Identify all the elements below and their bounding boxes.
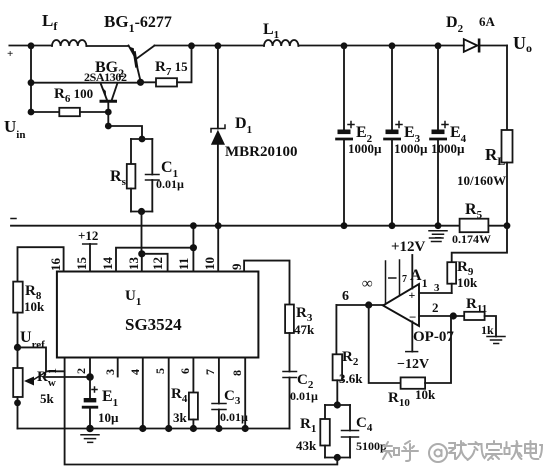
svg-text:1k: 1k (481, 323, 494, 337)
svg-text:12: 12 (150, 257, 165, 270)
diode D1 (211, 46, 225, 226)
pin 2 stub (89, 358, 91, 378)
node bus E4 (435, 222, 442, 229)
wire op-amp output node 6 (336, 304, 383, 306)
svg-text:10µ: 10µ (98, 410, 119, 425)
wire Lf to BG1 emitter (86, 45, 128, 47)
node top D1 (215, 42, 222, 49)
svg-text:3k: 3k (173, 410, 188, 425)
transistor BG2 (100, 83, 118, 112)
watermark zhihu (383, 441, 543, 462)
svg-text:2SA1302: 2SA1302 (84, 70, 127, 84)
svg-text:15: 15 (74, 257, 89, 271)
wire V+ supply (411, 255, 413, 289)
node pin11 pin14 (190, 244, 197, 251)
node pin8 (242, 425, 249, 432)
svg-text:∞: ∞ (362, 276, 373, 292)
svg-text:0.01µ: 0.01µ (290, 389, 318, 403)
node output 6 (365, 301, 372, 308)
wire op-amp plus input (419, 292, 452, 294)
svg-text:+12: +12 (78, 228, 98, 243)
svg-text:2: 2 (74, 368, 88, 374)
svg-text:2: 2 (432, 300, 439, 315)
svg-text:5: 5 (153, 368, 167, 374)
node top R7 riser (188, 42, 195, 49)
svg-text:+12V: +12V (391, 239, 426, 255)
node R2 bottom (334, 401, 341, 408)
wire wiper to pin2 (44, 376, 90, 378)
svg-text:0.01µ: 0.01µ (220, 410, 248, 424)
svg-text:7: 7 (402, 274, 407, 285)
pin 14 wire (116, 248, 193, 272)
svg-text:11: 11 (176, 258, 191, 270)
wire feedback bottom line (65, 358, 338, 465)
svg-text:1: 1 (45, 368, 59, 374)
node bus output corner (504, 222, 511, 229)
svg-text:OP-07: OP-07 (413, 329, 454, 345)
node BG1 base / R7 left (137, 79, 144, 86)
capacitor E4 (429, 46, 448, 226)
resistor R2 (333, 305, 343, 405)
svg-text:10: 10 (202, 257, 217, 270)
wire feedback down (369, 305, 401, 383)
svg-text:4: 4 (128, 369, 142, 375)
transistor BG1 (129, 46, 155, 82)
node R6 left (28, 109, 35, 116)
node pin13 (138, 250, 145, 257)
wire L1 to D2 (298, 45, 463, 47)
V- terminal bar (406, 351, 418, 353)
inductor L1 (264, 40, 298, 46)
node pin7 (215, 425, 222, 432)
resistor R4 on pin 6 (189, 358, 198, 429)
svg-text:−12V: −12V (397, 357, 429, 372)
svg-text:+: + (409, 288, 416, 302)
ground E1 (81, 435, 99, 443)
node minus input (450, 312, 457, 319)
resistor Rs with capacitor C1 parallel (127, 139, 159, 212)
resistor R7 (141, 46, 192, 87)
svg-text:1000µ: 1000µ (431, 141, 465, 156)
node Uref (14, 344, 21, 351)
capacitor C2 (283, 372, 297, 429)
node pin2 E1 (86, 373, 94, 381)
node pin6 (190, 425, 197, 432)
resistor R5 current sense (460, 219, 507, 233)
wire left rail (30, 46, 32, 113)
ground R11 (487, 337, 505, 344)
node pin5 (165, 425, 172, 432)
node left rail mid (28, 79, 35, 86)
pin 11 wire to bus (192, 226, 194, 272)
wire main ground bus (11, 225, 460, 227)
node E4 top (435, 42, 442, 49)
resistor R10 (401, 316, 451, 389)
svg-text:16: 16 (48, 258, 63, 272)
node base drive corner (105, 123, 112, 130)
pin 16 wire to R8 rail (18, 247, 64, 281)
svg-text:5k: 5k (40, 391, 55, 406)
node pin4 (139, 425, 146, 432)
diode D2 (464, 39, 507, 53)
pin 13 wire (141, 254, 143, 272)
svg-text:6: 6 (178, 368, 192, 374)
svg-text:SG3524: SG3524 (125, 315, 182, 334)
svg-text:3.6k: 3.6k (339, 371, 363, 386)
node pin10 bus (215, 222, 222, 229)
capacitor E2 (335, 46, 354, 226)
node input top (28, 42, 35, 49)
node BG2 base (105, 109, 112, 116)
resistor R11 (464, 312, 496, 337)
node RsC1 top (139, 136, 146, 143)
node RsC1 bottom (138, 208, 145, 215)
pin 4 wire (142, 358, 144, 429)
svg-text:1000µ: 1000µ (348, 141, 382, 156)
node E2 top (341, 42, 348, 49)
wire to Lf (31, 45, 52, 47)
svg-text:13: 13 (126, 257, 141, 271)
inductor Lf (52, 40, 86, 46)
svg-text:10/160W: 10/160W (457, 173, 506, 188)
svg-text:MBR20100: MBR20100 (225, 144, 298, 160)
node Rw bottom (14, 400, 21, 407)
pin 5 wire (168, 358, 170, 429)
resistor R3 (285, 305, 294, 372)
wire V- supply (411, 322, 413, 352)
potentiometer Rw (13, 347, 46, 428)
svg-text:10k: 10k (457, 275, 478, 290)
svg-text:8: 8 (230, 370, 244, 376)
wire BG1 collector to L1 (155, 45, 265, 47)
svg-text:0.01µ: 0.01µ (156, 177, 184, 191)
node R1C4 bottom (334, 454, 341, 461)
svg-text:7: 7 (203, 369, 217, 375)
IC U1 SG3524 (57, 272, 259, 358)
svg-text:3: 3 (103, 369, 117, 375)
svg-text:1000µ: 1000µ (394, 141, 428, 156)
op-amp null pin stubs (386, 260, 400, 303)
node E1 bottom (86, 425, 94, 433)
capacitor C3 on pin 7 (212, 358, 226, 429)
wire sense to R9 (452, 226, 507, 263)
svg-text:47k: 47k (294, 322, 315, 337)
pin 8 wire (244, 358, 246, 429)
node pin11 bus (190, 222, 197, 229)
svg-text:14: 14 (100, 257, 115, 271)
svg-text:+: + (7, 48, 13, 60)
op-amp A1 OP-07 (383, 284, 419, 326)
wire Uref to pin1 hook (18, 347, 65, 371)
wire pin9 to R3 (244, 261, 289, 305)
minus terminal mark (11, 218, 16, 220)
supply terminal bars (430, 238, 444, 242)
wire input top (9, 45, 31, 47)
pin 10 wire to bus (217, 226, 219, 272)
svg-text:9: 9 (229, 263, 244, 270)
node bus E2 (341, 222, 348, 229)
svg-text:6: 6 (342, 289, 349, 304)
resistor R9 (447, 262, 456, 293)
svg-text:10k: 10k (415, 387, 436, 402)
resistor R6 (31, 108, 108, 116)
wire BG2 base to drive node (108, 112, 142, 139)
pin 15 +12 terminal (89, 244, 91, 272)
svg-text:10k: 10k (24, 299, 45, 314)
wire analog ground bus (18, 428, 290, 430)
pin 12 wire (142, 254, 168, 272)
capacitor E1 (82, 377, 98, 429)
svg-text:43k: 43k (296, 438, 317, 453)
wire RsC1 bottom to pin13 net (141, 212, 143, 254)
wire BG2 emitter-collector rail (31, 82, 141, 84)
svg-text:6A: 6A (479, 14, 496, 29)
svg-text:0.174W: 0.174W (452, 232, 491, 246)
pin 3 stub (117, 358, 119, 377)
node bus E3 (389, 222, 396, 229)
ground at bus E4 (429, 231, 447, 238)
svg-text:3: 3 (434, 282, 440, 294)
capacitor E3 (383, 46, 402, 226)
node E3 top (389, 42, 396, 49)
wire op-amp minus input (419, 315, 464, 317)
resistor RL (502, 46, 513, 226)
resistor R8 (13, 282, 23, 348)
resistor R1 with capacitor C4 parallel (320, 405, 358, 458)
